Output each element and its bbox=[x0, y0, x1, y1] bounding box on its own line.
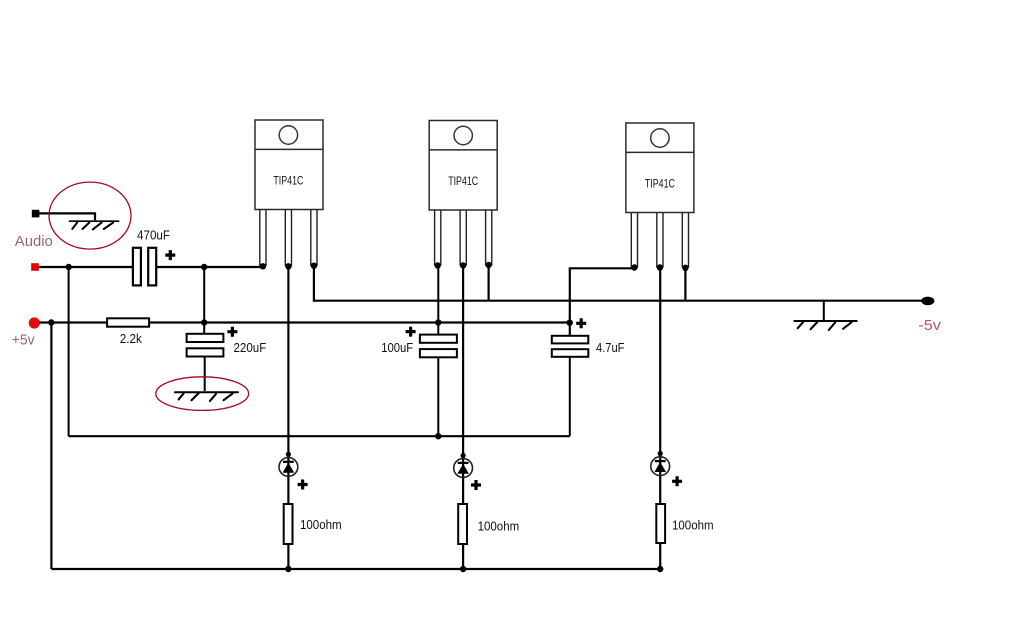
wire: Q1 pin2 down to R1 bbox=[287, 266, 289, 504]
Q2 pin 1 junction dot bbox=[435, 262, 441, 268]
wire: C2 to ground G2 bbox=[204, 357, 206, 392]
LED D1 node dot bbox=[286, 452, 291, 457]
svg-text:TIP41C: TIP41C bbox=[273, 176, 303, 188]
svg-text:470uF: 470uF bbox=[137, 228, 170, 243]
bottom bus wire bbox=[51, 568, 660, 570]
wire: node A down to lower bus bbox=[68, 267, 70, 436]
svg-text:+5v: +5v bbox=[12, 331, 35, 348]
junction dot bottom/R2 bbox=[460, 566, 466, 572]
junction dot rail/C3 bbox=[435, 319, 441, 325]
LED D3 bbox=[651, 457, 670, 476]
red highlight ellipse around C2 ground bbox=[156, 377, 249, 411]
junction dot rail/C4 bbox=[567, 320, 573, 326]
transistor Q2 TIP41C (TO-220 package) bbox=[429, 121, 497, 266]
LED D1 bbox=[279, 458, 298, 477]
LED D2 node dot bbox=[461, 453, 466, 458]
junction dot bottom/R3 bbox=[657, 566, 663, 572]
wire: Q2 pin1 down through -5v line to C3 bbox=[437, 266, 439, 335]
wire: Q1 pin3 down to -5v bus bbox=[313, 266, 315, 302]
Q2 pin 2 junction dot bbox=[460, 262, 466, 268]
resistor R3 100ohm bbox=[656, 504, 665, 543]
wire: audio terminal to ground G1 bbox=[39, 213, 95, 220]
wire: R1 to bottom bus bbox=[287, 544, 289, 569]
svg-text:4.7uF: 4.7uF bbox=[596, 340, 625, 355]
ground G3 bbox=[794, 321, 856, 330]
capacitor C3 100uF bbox=[420, 335, 457, 358]
lower bus wire y=436 bbox=[69, 435, 570, 437]
red highlight ellipse around audio ground bbox=[49, 182, 131, 249]
ground G2 bbox=[175, 392, 238, 401]
svg-text:100ohm: 100ohm bbox=[300, 517, 342, 532]
wire: R2 to bottom bus bbox=[462, 544, 464, 569]
junction dot rail/C2 bbox=[201, 319, 207, 325]
wire: C1 to Q1 base bbox=[157, 266, 264, 268]
LED D2 bbox=[454, 459, 473, 478]
Q1 pin 1 junction dot bbox=[260, 263, 266, 269]
plus sign C1 bbox=[165, 250, 175, 260]
Q3 pin 2 junction dot bbox=[657, 264, 663, 270]
Q3 pin 1 junction dot bbox=[631, 264, 637, 270]
Q1 pin 2 junction dot bbox=[285, 263, 291, 269]
junction dot bus/C3 bbox=[435, 433, 441, 439]
LED D3 node dot bbox=[658, 451, 663, 456]
wire: C4 bottom to lower bus corner bbox=[569, 357, 571, 436]
svg-text:-5v: -5v bbox=[918, 317, 941, 334]
junction dot +5v left bbox=[48, 319, 54, 325]
capacitor C4 4.7uF bbox=[552, 336, 589, 357]
svg-text:100ohm: 100ohm bbox=[672, 518, 714, 533]
svg-text:220uF: 220uF bbox=[234, 340, 267, 355]
wire: Q3 pin2 down to R3 bbox=[659, 268, 661, 505]
plus sign C3 bbox=[406, 327, 416, 337]
svg-text:2.2k: 2.2k bbox=[120, 331, 142, 346]
junction dot bottom/R1 bbox=[285, 566, 291, 572]
audio signal terminal (red square) bbox=[31, 263, 39, 271]
+5v rail wire bbox=[39, 321, 570, 323]
capacitor C1 470uF bbox=[133, 248, 156, 286]
svg-text:100uF: 100uF bbox=[381, 340, 413, 355]
wire: -5v bus to ground G3 bbox=[823, 301, 825, 321]
Q3 pin 3 junction dot bbox=[682, 265, 688, 271]
junction node A bbox=[66, 264, 72, 270]
svg-text:Audio: Audio bbox=[15, 233, 53, 250]
wire: Q2 pin2 down to R2 bbox=[462, 266, 464, 505]
plus sign D3 bbox=[672, 476, 682, 486]
Q1 pin 3 junction dot bbox=[311, 263, 317, 269]
wire: R3 to bottom bus bbox=[659, 543, 661, 569]
plus sign C2 bbox=[227, 327, 237, 337]
audio input terminal (black square) bbox=[32, 210, 40, 218]
-5v bus wire bbox=[314, 300, 922, 302]
wire: corner to Q3 pin1 bbox=[570, 268, 635, 336]
transistor Q1 TIP41C (TO-220 package) bbox=[255, 120, 323, 266]
junction node B bbox=[201, 264, 207, 270]
resistor R4 2.2k bbox=[107, 318, 149, 326]
svg-text:TIP41C: TIP41C bbox=[448, 176, 478, 188]
wire: node B down to +5v rail / C2 bbox=[203, 267, 205, 335]
-5v terminal (black oval) bbox=[921, 297, 934, 306]
plus sign D1 bbox=[298, 480, 308, 490]
Q2 pin 3 junction dot bbox=[485, 262, 491, 268]
resistor R1 100ohm bbox=[284, 504, 293, 544]
ground G1 (audio) bbox=[70, 221, 119, 229]
capacitor C2 220uF bbox=[187, 334, 224, 357]
plus sign C4 bbox=[576, 318, 586, 328]
plus sign D2 bbox=[471, 480, 481, 490]
svg-text:100ohm: 100ohm bbox=[478, 518, 520, 533]
wire: Q2 pin3 down to -5v bus bbox=[488, 265, 490, 301]
resistor R2 100ohm bbox=[458, 504, 467, 544]
wire: +5v junction down left side bbox=[50, 323, 52, 570]
wire: C3 bottom to lower bus bbox=[437, 357, 439, 436]
transistor Q3 TIP41C (TO-220 package) bbox=[626, 123, 694, 268]
+5v terminal (red dot) bbox=[29, 317, 40, 328]
wire: red square to C1 bbox=[39, 266, 133, 268]
svg-text:TIP41C: TIP41C bbox=[645, 179, 675, 191]
wire: Q3 pin3 down to -5v bus bbox=[684, 268, 686, 301]
